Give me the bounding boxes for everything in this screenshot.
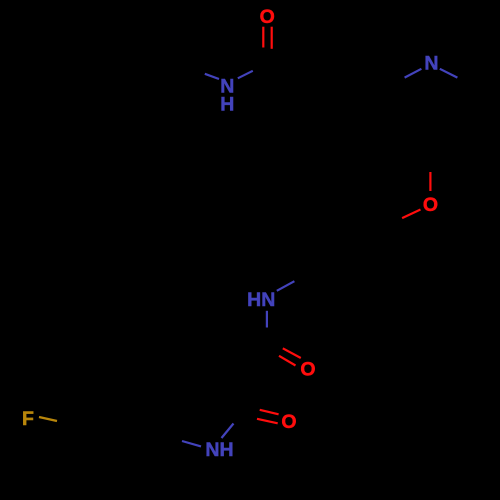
svg-text:O: O xyxy=(260,6,275,28)
svg-text:NH: NH xyxy=(205,439,233,461)
svg-text:O: O xyxy=(423,194,438,216)
svg-text:O: O xyxy=(281,411,296,433)
svg-text:N: N xyxy=(424,53,438,75)
svg-text:HN: HN xyxy=(247,289,275,311)
svg-text:O: O xyxy=(300,358,315,380)
svg-text:F: F xyxy=(22,408,34,430)
svg-text:H: H xyxy=(220,94,234,116)
